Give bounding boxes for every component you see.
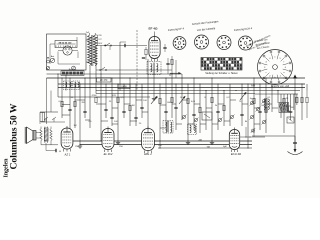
- tube V3 (det/output): [142, 127, 155, 154]
- title Columbus 50 W (rotated): [9, 103, 20, 169]
- svg-text:110V: 110V: [98, 43, 103, 45]
- rotary switch caption below-left: [251, 84, 255, 88]
- bus wire y90.5: [96, 90, 300, 92]
- svg-text:Ant: Ant: [51, 55, 55, 58]
- svg-text:UKW: UKW: [121, 87, 127, 89]
- tube V1 (rectifier): [61, 126, 73, 152]
- socket view 2: [195, 35, 209, 49]
- coil can below V5: [147, 62, 161, 75]
- output transformer winding block: [44, 127, 48, 144]
- interconnection links: [62, 100, 291, 128]
- switch contacts with arrows: [182, 99, 267, 125]
- svg-text:1M: 1M: [131, 105, 134, 107]
- variable capacitor in FM box: [50, 58, 54, 62]
- tube V5 (IF amp): [149, 35, 160, 62]
- coil can B: [73, 81, 80, 90]
- svg-text:2M: 2M: [81, 102, 84, 104]
- IF can D: [188, 124, 197, 135]
- bus wire y112 left: [40, 111, 58, 113]
- FM box internal wires: [50, 37, 80, 64]
- diagonal arrow c: [240, 92, 247, 100]
- shield dashed vertical: [136, 30, 138, 91]
- bottom bus y141: [70, 140, 252, 142]
- svg-text:AZ 1: AZ 1: [64, 153, 71, 157]
- hatched coil right: [279, 103, 289, 113]
- V4 right link: [240, 127, 265, 138]
- svg-text:ECH 4Ω: ECH 4Ω: [231, 152, 242, 156]
- transformer T1 core: [92, 35, 93, 66]
- speaker wiring: [36, 117, 65, 153]
- band selector strip: [61, 68, 84, 75]
- tube V6 (in FM box): [58, 46, 78, 55]
- svg-text:ZF 470: ZF 470: [100, 80, 108, 82]
- socket view 1: [173, 37, 186, 50]
- tube V3 label: [144, 152, 152, 156]
- svg-text:+AB: +AB: [198, 138, 203, 141]
- stub wires above bus left of table: [163, 44, 176, 78]
- V5 left components: [142, 47, 147, 60]
- wire junction dots: [57, 73, 302, 148]
- note right of sockets: [254, 39, 270, 50]
- tube V4 label: [231, 152, 242, 156]
- antenna arrow top right: [293, 75, 297, 95]
- tuning indicator circle: [72, 66, 76, 70]
- socket view 2/3 caption: [192, 19, 219, 26]
- socket view 1 caption: [168, 26, 185, 32]
- dial shaft vertical: [120, 42, 126, 91]
- tube V1 label: [64, 153, 71, 157]
- svg-text:Columbus 50 W: Columbus 50 W: [9, 103, 20, 169]
- V5 anode top wire: [154, 32, 156, 35]
- loudspeaker: [25, 127, 36, 144]
- socket view 3: [217, 36, 231, 50]
- socket view 3 sublabel: [197, 26, 216, 32]
- svg-text:88 92 96 100: 88 92 96 100: [59, 43, 73, 45]
- volume control: [40, 113, 45, 125]
- svg-text:4μF: 4μF: [223, 146, 227, 148]
- maker Ingelen (rotated): [4, 158, 10, 178]
- transformer T1 primary winding: [88, 35, 92, 66]
- svg-text:EF 4Ω: EF 4Ω: [148, 27, 158, 31]
- rotary switch caption above: [244, 34, 271, 51]
- IF can C: [163, 121, 173, 134]
- FM unit dial scale: [55, 41, 77, 48]
- ZF label box: [97, 78, 112, 82]
- svg-text:c: c: [266, 72, 267, 74]
- wire arrow on y70 line: [96, 67, 172, 71]
- switch contact on top link: [105, 43, 112, 46]
- switch position table: [201, 58, 242, 71]
- right edge resistor: [306, 91, 308, 119]
- rotary wave-band switch rear view: [258, 50, 293, 85]
- field coil resistor left: [40, 127, 42, 145]
- left column verticals: [47, 46, 102, 125]
- bus wire y87.5: [58, 87, 305, 89]
- capacitor on top link: [124, 44, 125, 47]
- ground symbols: [68, 97, 214, 148]
- diagonal arrow b: [179, 96, 186, 104]
- small resistors and capacitors: [61, 97, 303, 118]
- bus wire y74: [47, 73, 183, 75]
- bus wire y93.5: [96, 93, 255, 95]
- switch frame box: [202, 112, 212, 120]
- table caption: [205, 72, 238, 75]
- wire transformer to tube V5: [98, 35, 148, 50]
- UKW label box: [118, 84, 130, 88]
- svg-text:EL 4b2: EL 4b2: [104, 152, 113, 156]
- pointer bracket: [170, 72, 181, 76]
- antenna input terminals: [47, 55, 55, 69]
- socket view 4: [239, 36, 253, 50]
- transformer T1 secondary winding: [93, 35, 97, 66]
- rotary switch caption below: [271, 85, 290, 88]
- socket view 4 caption: [234, 26, 253, 32]
- resistor right of OT: [50, 127, 52, 145]
- component value labels: [58, 97, 294, 127]
- bottom bus y144.5: [80, 144, 252, 146]
- FM tuner unit box: [47, 34, 87, 70]
- bus wire y94 right: [255, 93, 298, 95]
- bus wire y84: [58, 83, 305, 85]
- tube V2 label: [104, 152, 113, 156]
- bottom right link y136: [252, 135, 295, 137]
- svg-text:Stellung der Schalter u. Taste: Stellung der Schalter u. Tasten: [205, 72, 238, 75]
- vertical wire mesh: [58, 46, 307, 153]
- bottom bus y148: [158, 147, 252, 149]
- coil can A: [64, 81, 72, 90]
- contact near V4: [251, 128, 255, 132]
- svg-text:Ingelen: Ingelen: [4, 158, 10, 178]
- tube V5 label: [148, 27, 158, 31]
- output jack right: [287, 117, 294, 123]
- svg-text:1M: 1M: [73, 125, 76, 127]
- tube V2 (output): [102, 127, 114, 153]
- bus wire y78: [47, 77, 306, 79]
- bus wire y97: [58, 96, 150, 98]
- bottom bus labels: [198, 138, 211, 148]
- tube V4 (mixer): [229, 128, 239, 153]
- earth symbol bottom right: [288, 136, 303, 155]
- transformer T1 leads: [86, 32, 98, 62]
- value labels: [75, 95, 227, 148]
- oscillator coil right: [264, 98, 269, 112]
- svg-text:−AB: −AB: [206, 145, 211, 148]
- diagonal arrow a: [151, 96, 158, 104]
- capacitor on right lead: [293, 142, 297, 143]
